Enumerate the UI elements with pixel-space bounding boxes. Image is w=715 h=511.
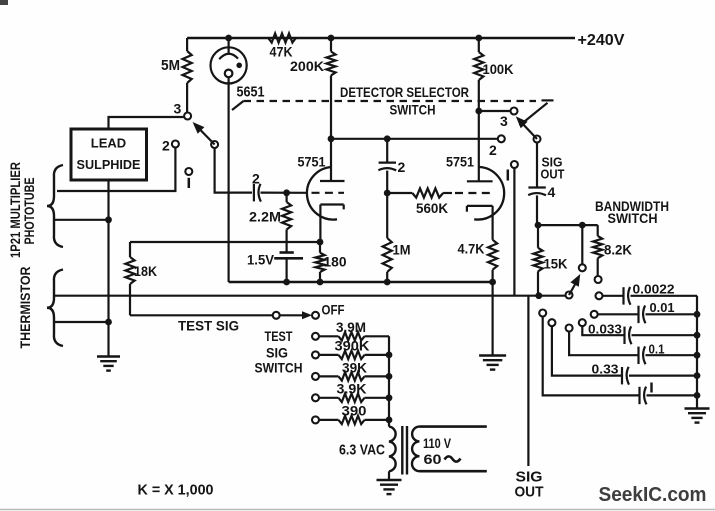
svg-text:THERMISTOR: THERMISTOR bbox=[18, 266, 33, 348]
svg-text:5M: 5M bbox=[161, 57, 180, 74]
svg-text:SULPHIDE: SULPHIDE bbox=[77, 157, 141, 172]
svg-text:5751: 5751 bbox=[298, 154, 326, 170]
svg-text:39K: 39K bbox=[342, 360, 367, 375]
svg-text:OFF: OFF bbox=[322, 302, 345, 318]
svg-text:K = X 1,000: K = X 1,000 bbox=[138, 482, 214, 499]
svg-text:0.01: 0.01 bbox=[650, 300, 675, 315]
svg-text:0.33: 0.33 bbox=[592, 362, 619, 377]
svg-text:390K: 390K bbox=[335, 339, 370, 354]
svg-text:2: 2 bbox=[489, 142, 497, 158]
svg-text:18K: 18K bbox=[134, 263, 157, 279]
svg-text:1P21 MULTIPLIER: 1P21 MULTIPLIER bbox=[8, 162, 23, 258]
svg-text:5651: 5651 bbox=[237, 84, 265, 101]
svg-text:SWITCH: SWITCH bbox=[255, 360, 303, 376]
svg-text:560K: 560K bbox=[416, 200, 448, 216]
svg-text:PHOTOTUBE: PHOTOTUBE bbox=[22, 178, 37, 245]
svg-text:6.3 VAC: 6.3 VAC bbox=[339, 442, 385, 459]
svg-text:2.2M: 2.2M bbox=[249, 209, 281, 225]
svg-text:8.2K: 8.2K bbox=[604, 242, 632, 258]
svg-text:100K: 100K bbox=[483, 61, 514, 77]
svg-text:0.0022: 0.0022 bbox=[633, 282, 675, 297]
svg-text:15K: 15K bbox=[544, 256, 568, 272]
svg-text:4: 4 bbox=[548, 184, 556, 200]
svg-text:1.5V: 1.5V bbox=[247, 252, 275, 268]
svg-text:2: 2 bbox=[398, 159, 406, 175]
svg-text:0.033: 0.033 bbox=[588, 322, 622, 337]
svg-text:1M: 1M bbox=[393, 242, 411, 258]
svg-text:5751: 5751 bbox=[446, 154, 474, 170]
svg-text:2: 2 bbox=[162, 138, 170, 154]
svg-text:200K: 200K bbox=[290, 58, 324, 74]
svg-text:0.1: 0.1 bbox=[649, 342, 665, 357]
svg-text:3.9M: 3.9M bbox=[336, 320, 366, 335]
svg-text:390: 390 bbox=[342, 403, 367, 418]
svg-text:TEST SIG: TEST SIG bbox=[178, 318, 239, 334]
svg-text:3: 3 bbox=[174, 101, 182, 117]
svg-text:DETECTOR SELECTOR: DETECTOR SELECTOR bbox=[340, 84, 469, 100]
svg-text:SWITCH: SWITCH bbox=[390, 102, 436, 118]
svg-text:4.7K: 4.7K bbox=[458, 241, 485, 257]
svg-text:OUT: OUT bbox=[541, 167, 565, 182]
svg-text:SWITCH: SWITCH bbox=[608, 211, 658, 226]
svg-text:TEST: TEST bbox=[265, 328, 293, 344]
svg-text:SIG: SIG bbox=[266, 345, 288, 361]
svg-text:+240V: +240V bbox=[578, 32, 625, 49]
svg-text:180: 180 bbox=[324, 254, 347, 270]
svg-text:2: 2 bbox=[252, 171, 260, 187]
svg-text:3: 3 bbox=[500, 113, 508, 129]
svg-text:OUT: OUT bbox=[515, 484, 544, 501]
svg-text:3.9K: 3.9K bbox=[337, 382, 367, 397]
svg-text:110 V: 110 V bbox=[423, 435, 452, 451]
svg-text:60: 60 bbox=[424, 451, 442, 467]
svg-text:SeekIC.com: SeekIC.com bbox=[599, 483, 707, 506]
svg-text:LEAD: LEAD bbox=[91, 136, 126, 151]
